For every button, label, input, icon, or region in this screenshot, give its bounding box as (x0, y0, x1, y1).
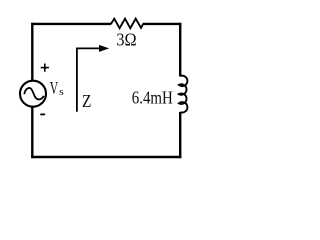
svg-text:s: s (59, 86, 64, 98)
svg-text:V: V (50, 78, 58, 98)
minus sign (40, 113, 45, 115)
wire top-left segment (31, 23, 111, 25)
voltage source sine wave (24, 88, 43, 99)
wire right lower (inductor to bottom) (179, 112, 181, 158)
svg-text:3Ω: 3Ω (116, 30, 136, 50)
impedance arrow Z (horizontal shaft) (76, 47, 101, 49)
impedance arrow head (99, 45, 109, 52)
svg-text:Z: Z (82, 91, 91, 111)
wire left lower (source to bottom) (31, 106, 33, 158)
wire right upper (to inductor) (179, 23, 181, 77)
wire left upper (top to source) (31, 23, 33, 81)
wire bottom (31, 156, 181, 158)
wire top-right segment (143, 23, 182, 25)
inductor L1 coil (4 humps) (179, 76, 187, 113)
impedance arrow Z (vertical shaft) (76, 48, 78, 112)
plus sign (41, 67, 49, 69)
resistor R 3ohm zigzag (111, 19, 143, 29)
svg-text:6.4mH: 6.4mH (132, 88, 173, 108)
voltage source Vs circle (20, 81, 46, 107)
